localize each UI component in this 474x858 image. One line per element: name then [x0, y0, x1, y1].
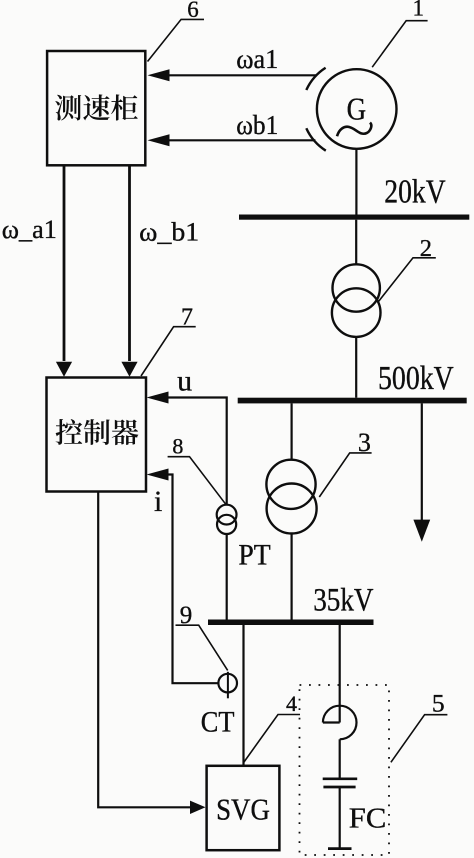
svg-text:4: 4 — [286, 691, 297, 716]
svg-text:ω_a1: ω_a1 — [2, 215, 57, 244]
svg-text:FC: FC — [349, 802, 387, 834]
svg-text:2: 2 — [420, 235, 432, 262]
svg-text:ωb1: ωb1 — [236, 110, 278, 140]
svg-text:7: 7 — [181, 304, 193, 330]
svg-text:1: 1 — [413, 0, 425, 21]
svg-text:20kV: 20kV — [384, 173, 446, 210]
svg-text:G: G — [347, 90, 367, 126]
svg-text:CT: CT — [201, 705, 235, 738]
svg-text:500kV: 500kV — [378, 360, 454, 397]
svg-text:5: 5 — [432, 689, 445, 718]
svg-text:6: 6 — [187, 0, 199, 22]
svg-text:SVG: SVG — [216, 791, 270, 826]
svg-text:ωa1: ωa1 — [236, 44, 278, 74]
svg-text:ω_b1: ω_b1 — [139, 218, 199, 247]
svg-text:u: u — [177, 364, 192, 397]
svg-text:PT: PT — [238, 538, 270, 571]
svg-text:i: i — [154, 485, 162, 518]
svg-text:9: 9 — [180, 602, 193, 629]
svg-text:3: 3 — [358, 428, 371, 457]
svg-text:8: 8 — [172, 434, 183, 459]
svg-text:35kV: 35kV — [313, 582, 373, 618]
